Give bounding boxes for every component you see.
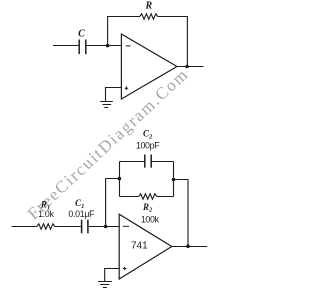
pin plus (non-inverting) [123, 267, 127, 271]
ground [100, 102, 113, 108]
svg-text:R: R [144, 0, 152, 11]
node junction feedback left [118, 177, 122, 181]
wire C2 branch left [120, 161, 145, 163]
wire R2 branch left [120, 196, 139, 198]
wire feedback to output [174, 180, 189, 247]
value 100k [141, 215, 160, 225]
node junction at inverting input [106, 44, 110, 48]
pin minus (inverting) [123, 225, 129, 227]
svg-text:100k: 100k [141, 215, 160, 225]
capacitor C [79, 40, 86, 55]
capacitor C1 [82, 220, 88, 234]
value 0.01uF [68, 209, 95, 219]
node output junction [185, 65, 189, 69]
node output junction [186, 244, 190, 248]
ground [98, 282, 112, 288]
wire output [177, 66, 204, 68]
wire R1 to C1 [55, 226, 81, 228]
label R2 [142, 202, 153, 214]
label R1 [40, 200, 50, 212]
node junction feedback right [172, 178, 176, 182]
wire C2 branch right [152, 161, 174, 163]
watermark FreeCircuitDiagram.Com [24, 64, 193, 223]
wire top input [53, 45, 78, 47]
wire output [172, 246, 207, 248]
pin plus (non-inverting) [125, 86, 129, 90]
svg-text:741: 741 [131, 240, 148, 251]
resistor R1 [37, 224, 55, 229]
svg-text:100pF: 100pF [136, 141, 160, 151]
capacitor C2 [145, 155, 151, 168]
node junction at inverting input [104, 225, 108, 229]
wire plus input to ground [105, 269, 120, 282]
svg-text:C: C [78, 29, 85, 40]
op-amp U2 741 [119, 214, 172, 279]
wire R2 branch right [157, 196, 174, 198]
wire C1 to inverting input [89, 226, 119, 228]
wire C to inverting input [87, 45, 122, 47]
wire bottom input [12, 226, 37, 228]
wire plus input to ground [106, 88, 122, 101]
label C2 [143, 129, 153, 141]
label R [144, 0, 152, 11]
wire feedback box right vertical [173, 162, 175, 197]
label C1 [75, 198, 84, 210]
wire feedback right to output [158, 17, 188, 67]
resistor R [140, 14, 158, 19]
svg-text:1.0k: 1.0k [38, 209, 54, 219]
pin minus (inverting) [126, 45, 131, 47]
label 741 [131, 240, 148, 251]
svg-text:0.01μF: 0.01μF [68, 209, 95, 219]
op-amp U1 [121, 34, 177, 99]
value 1.0k [38, 209, 54, 219]
wire feedback box left vertical [119, 162, 121, 197]
wire feedback left vertical [108, 17, 140, 46]
label C [78, 29, 85, 40]
resistor R2 [139, 194, 157, 199]
wire feedback tap up [106, 179, 120, 227]
value 100pF [136, 141, 160, 151]
